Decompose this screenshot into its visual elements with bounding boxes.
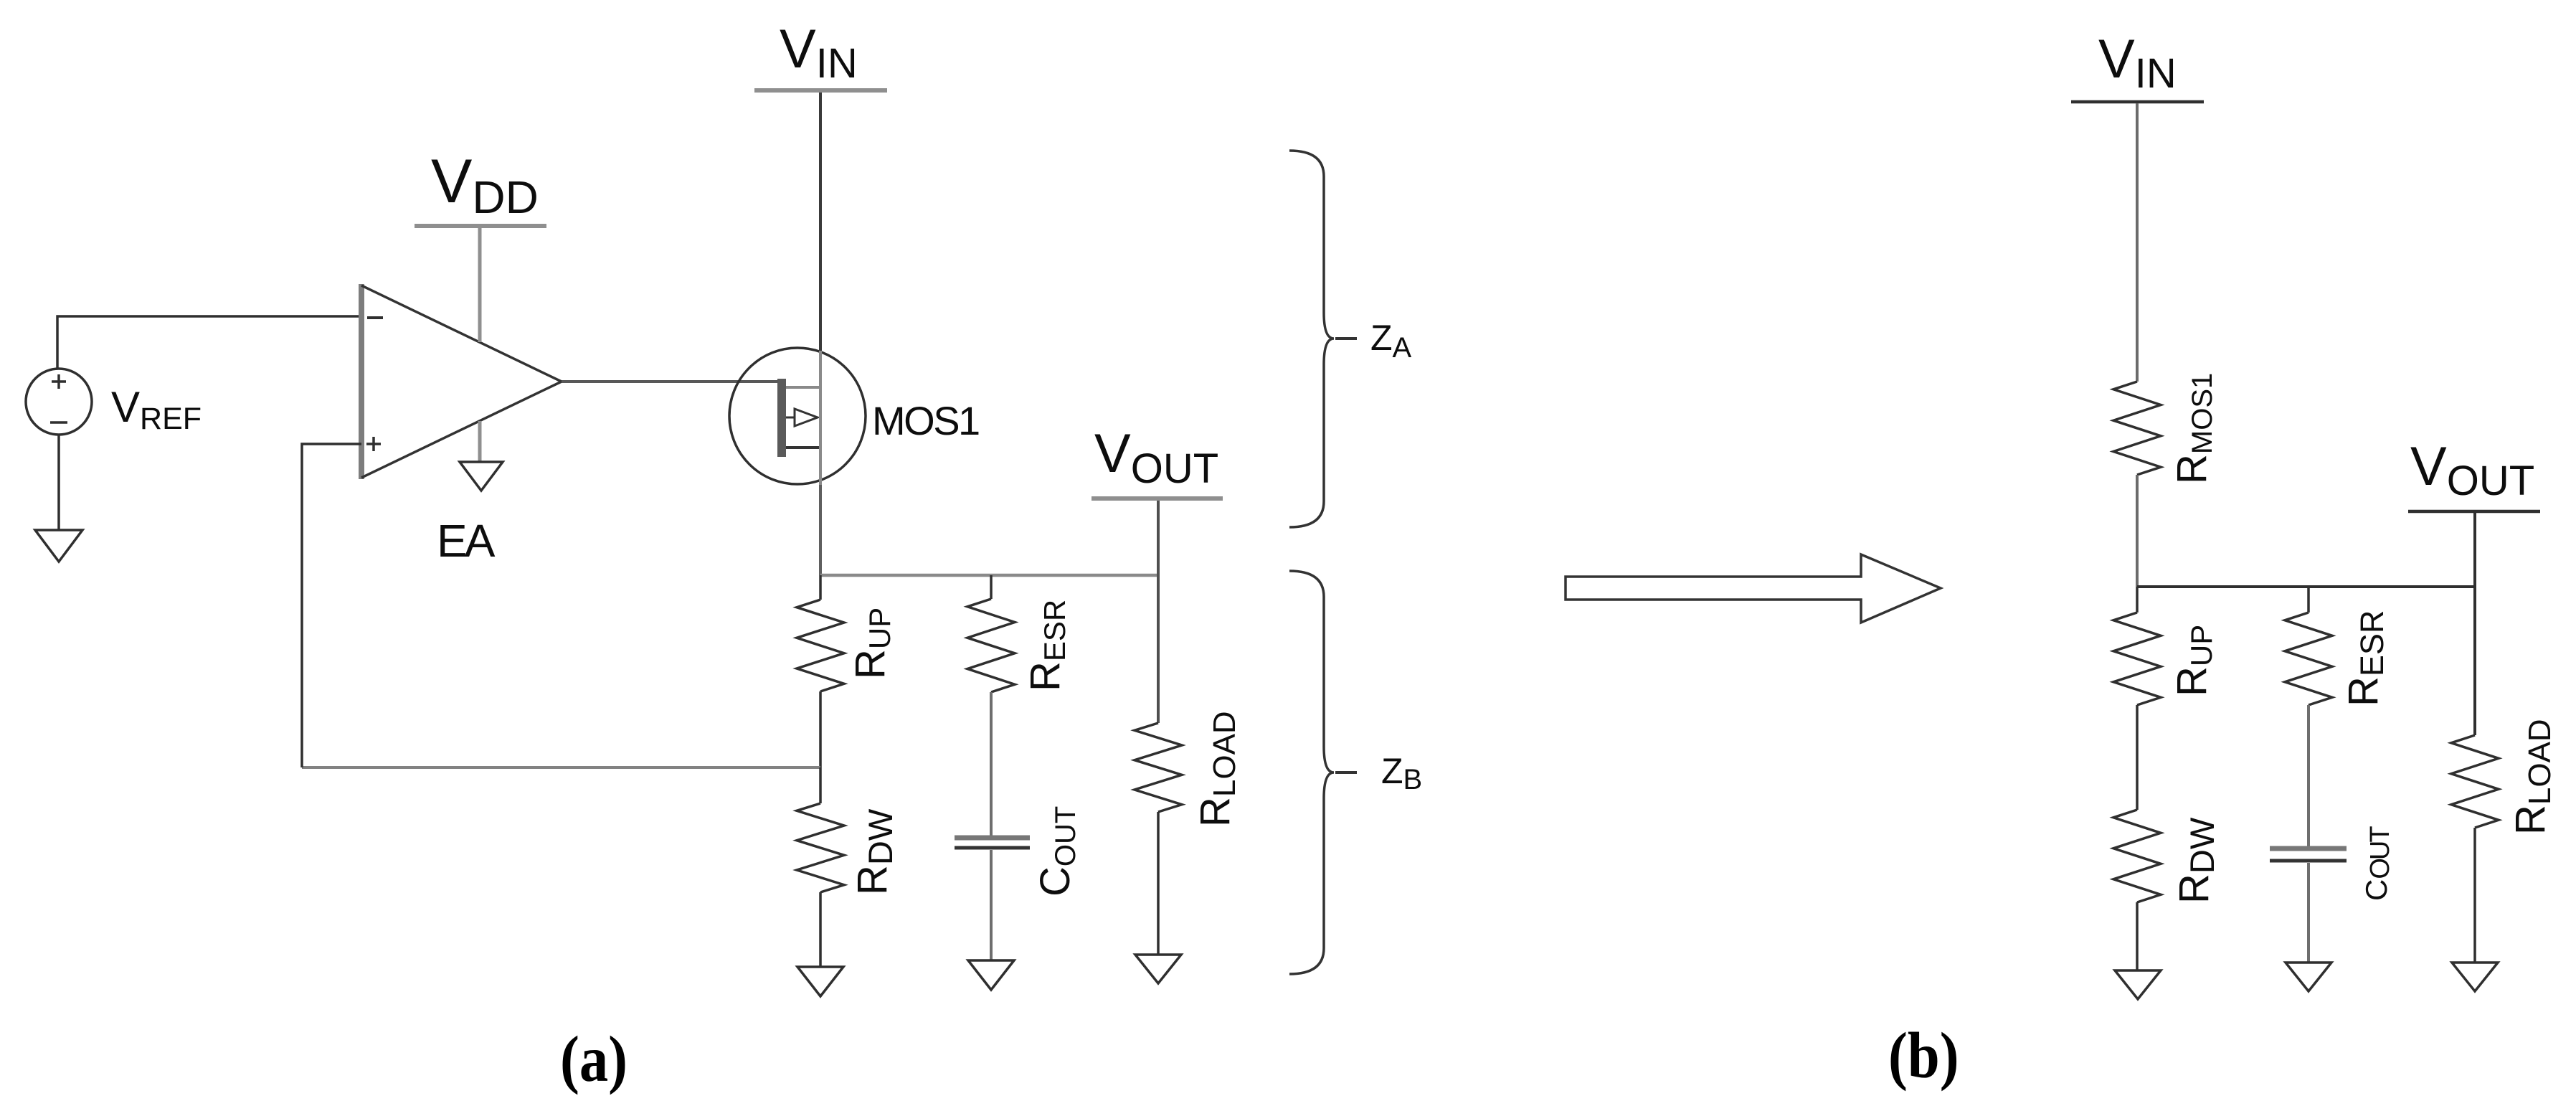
resistor RMOS1 xyxy=(2113,382,2161,587)
svg-text:MOS1: MOS1 xyxy=(872,398,979,443)
resistor RDW (b) xyxy=(2113,810,2161,970)
resistor RESR xyxy=(967,575,1015,692)
svg-text:COUT: COUT xyxy=(2359,826,2395,901)
ground (RLOAD b) xyxy=(2452,963,2498,991)
svg-text:(a): (a) xyxy=(560,1024,628,1095)
ground (EA) xyxy=(460,462,503,491)
resistor RLOAD (a) xyxy=(1135,723,1182,955)
resistor RESR (b) xyxy=(2285,587,2332,849)
capacitor COUT (b) xyxy=(2270,849,2347,963)
transistor MOS1 xyxy=(729,348,866,484)
op-amp plus input marker xyxy=(366,437,381,451)
wire feedback from divider to op-amp plus xyxy=(302,766,820,769)
VIN rail (a) xyxy=(754,88,887,93)
wire VIN to RMOS1 xyxy=(2136,103,2139,382)
VDD rail xyxy=(415,224,546,228)
wire VREF top to op-amp inverting input xyxy=(57,316,361,369)
wire VREF bottom to ground xyxy=(57,435,60,530)
brace ZB xyxy=(1289,571,1357,974)
wire VOUT vertical through node to RLOAD xyxy=(1157,501,1160,723)
VOUT rail (a) xyxy=(1092,496,1223,501)
brace ZA xyxy=(1289,151,1357,527)
op-amp U1 EA triangle xyxy=(361,284,562,479)
wire VIN vertical to node xyxy=(819,93,822,351)
VOUT rail (b) xyxy=(2408,510,2540,514)
ground (VREF) xyxy=(35,530,82,562)
voltage source VREF circle xyxy=(26,369,92,435)
svg-text:EA: EA xyxy=(437,515,496,567)
ground (RLOAD a) xyxy=(1135,955,1181,983)
ground (COUT a) xyxy=(968,960,1014,990)
arrow xyxy=(1566,554,1941,623)
resistor RUP (b) xyxy=(2113,587,2161,810)
wire op-amp to ground stem xyxy=(478,421,482,462)
ground (RDW b) xyxy=(2115,970,2161,999)
node wire output (a) xyxy=(820,574,1158,577)
resistor RUP xyxy=(797,575,844,767)
wire VDD stem into op-amp xyxy=(478,228,482,342)
ground (RDW) xyxy=(797,967,843,996)
wire VOUT vertical to node (b) xyxy=(2473,513,2476,735)
VIN rail (b) xyxy=(2071,100,2204,104)
wire op-amp output to MOS1 gate xyxy=(562,380,779,383)
ground (COUT b) xyxy=(2286,963,2331,991)
svg-text:(b): (b) xyxy=(1888,1020,1959,1092)
resistor RDW xyxy=(797,767,844,967)
op-amp minus input marker xyxy=(367,316,383,319)
resistor RLOAD (b) xyxy=(2451,735,2499,963)
node wire output (b) xyxy=(2137,585,2475,588)
capacitor COUT (a) xyxy=(955,838,1030,960)
wire RESR to COUT xyxy=(990,692,993,838)
